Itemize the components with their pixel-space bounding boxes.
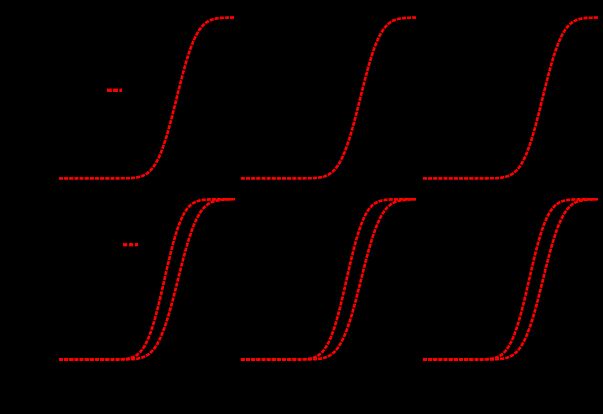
legend marker row1-col1 <box>107 89 122 92</box>
curve row1-col2 <box>241 18 416 179</box>
legend marker row2-col1 <box>123 243 138 246</box>
curve row1-col3 <box>423 18 598 179</box>
curve row2-col1 left <box>59 199 235 359</box>
curve row2-col3 left <box>423 199 598 359</box>
curve row1-col1 <box>59 18 235 179</box>
curve row2-col1 right <box>59 199 235 359</box>
curve row2-col3 right <box>423 199 598 359</box>
curve row2-col2 right <box>241 199 416 359</box>
curve row2-col2 left <box>241 199 416 359</box>
